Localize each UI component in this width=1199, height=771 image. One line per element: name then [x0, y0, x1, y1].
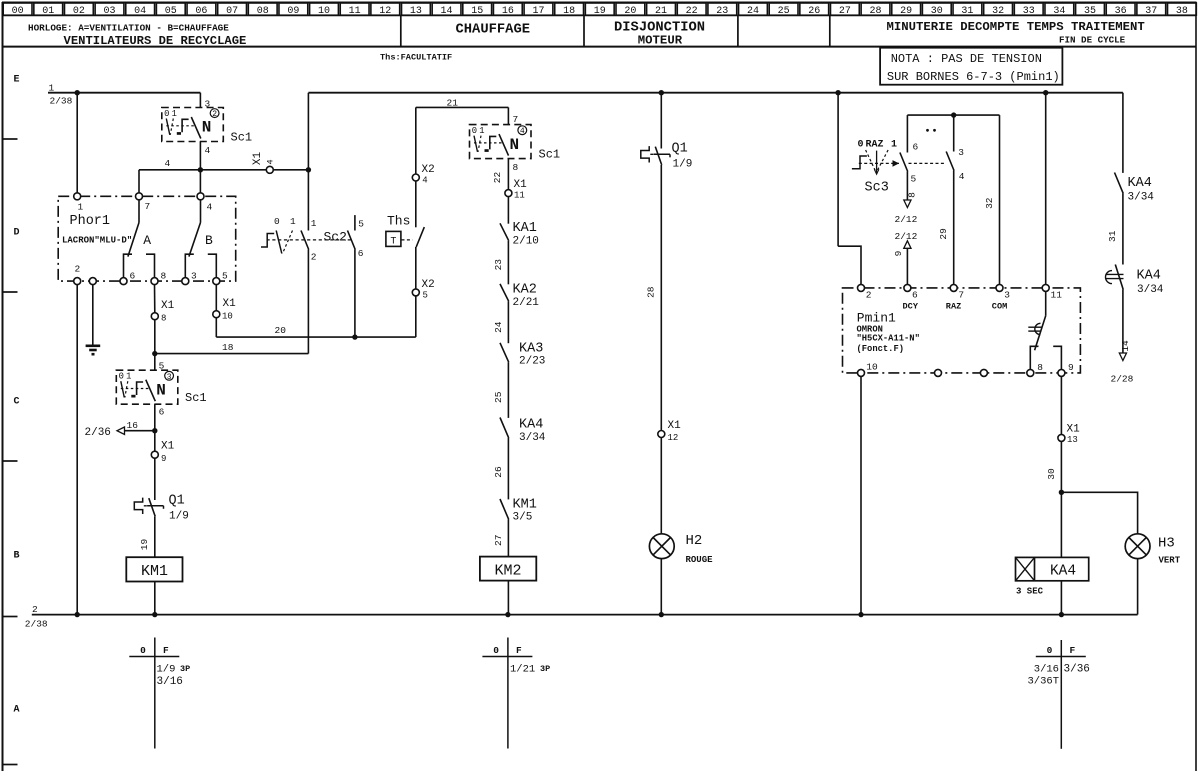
svg-text:2/10: 2/10: [513, 235, 539, 247]
contact KA3: [500, 343, 509, 362]
wire jog to Pmin1 pin2: [838, 246, 861, 285]
wire KA3 to KA4: [507, 362, 509, 418]
wire Q1a to KM1 coil: [154, 517, 156, 558]
Pmin1 pin9 terminal: [1058, 369, 1065, 376]
svg-text:Sc2: Sc2: [324, 229, 347, 244]
table disjoncteur Q1 (col05): [154, 638, 156, 749]
svg-text:3P: 3P: [540, 664, 550, 674]
Pmin1 bottom terminal b3: [980, 369, 987, 376]
title band divider col13: [400, 15, 402, 46]
wire 20 horizontal: [216, 336, 415, 338]
svg-text:4: 4: [265, 159, 275, 164]
svg-text:1/9: 1/9: [157, 663, 176, 675]
junction y115: [951, 112, 956, 117]
svg-text:X1: X1: [668, 420, 682, 432]
wire Q1b to X1:12: [660, 165, 662, 431]
svg-text:X1: X1: [223, 298, 237, 310]
svg-text:4: 4: [165, 158, 171, 169]
page border left: [2, 2, 4, 771]
svg-text:3/16: 3/16: [157, 676, 183, 688]
wire Sc1 pin8 to X1:11: [507, 159, 509, 190]
selector Sc2 actuator step: [261, 234, 274, 248]
table minuterie (col34): [1060, 640, 1062, 749]
svg-text:23: 23: [493, 259, 504, 271]
wire rail1 to Q1b: [660, 93, 662, 149]
wire H3 to rail2: [1137, 559, 1139, 615]
svg-text:Sc3: Sc3: [865, 181, 889, 196]
wire Sc3 pin5 down to arrow: [906, 172, 908, 201]
wire Pmin1 pin10 to rail2: [860, 376, 862, 614]
svg-text:Q1: Q1: [169, 494, 185, 509]
svg-text:0: 0: [493, 645, 499, 656]
arrow down 2/28: [1119, 353, 1126, 361]
svg-text:2: 2: [866, 289, 872, 300]
terminal X1:11: [505, 190, 512, 197]
wire junction to KA4 coil: [1060, 492, 1062, 557]
svg-text:ROUGE: ROUGE: [686, 555, 714, 565]
Pmin1 pin3 terminal: [996, 284, 1003, 291]
svg-text:H2: H2: [686, 533, 703, 549]
Pmin1 changeover common from pin11: [1045, 291, 1047, 316]
Phor1 switch A stub pin6: [124, 254, 133, 278]
coil KM1: [126, 557, 182, 581]
wire rail 1 left segment: [48, 92, 200, 94]
svg-text:KA1: KA1: [513, 221, 537, 236]
svg-text:4: 4: [959, 171, 965, 182]
svg-text:3/34: 3/34: [1137, 284, 1164, 296]
svg-text:KM2: KM2: [494, 562, 521, 579]
wire KA4 coil to rail2: [1060, 581, 1062, 615]
svg-text:6: 6: [913, 142, 919, 153]
wire rail 1 right segment: [308, 92, 1123, 94]
title band divider col24: [737, 15, 739, 46]
svg-text:X1: X1: [161, 300, 175, 312]
svg-text:4: 4: [205, 145, 211, 156]
Phor1 switch A blade: [138, 200, 140, 223]
svg-text:1: 1: [49, 82, 55, 93]
svg-text:12: 12: [668, 433, 679, 443]
wire X2:5 down to wire20: [415, 296, 417, 337]
Pmin1 stub pin8: [1030, 346, 1038, 369]
svg-text:F: F: [1069, 645, 1075, 656]
Pmin1 delay symbol: [1035, 323, 1041, 334]
wire KA4 contact to timed contact: [1122, 193, 1124, 264]
wire 18 horizontal: [155, 353, 309, 355]
svg-text:MINUTERIE DECOMPTE TEMPS TRAIT: MINUTERIE DECOMPTE TEMPS TRAITEMENT: [887, 20, 1146, 34]
svg-text:2/38: 2/38: [25, 619, 48, 630]
svg-text:F: F: [516, 645, 522, 656]
svg-text:1: 1: [479, 126, 484, 136]
svg-text:SUR BORNES 6-7-3 (Pmin1): SUR BORNES 6-7-3 (Pmin1): [887, 70, 1060, 84]
svg-text:X1: X1: [1067, 424, 1081, 436]
svg-text:Sc1: Sc1: [539, 148, 561, 162]
Phor1 pin4 terminal: [197, 193, 204, 200]
wire KM2 to rail2: [507, 581, 509, 615]
svg-text:3/34: 3/34: [519, 432, 546, 444]
svg-text:Sc1: Sc1: [231, 131, 253, 145]
wire rail1 to Pmin1 pin11: [1045, 93, 1047, 285]
svg-text:6: 6: [130, 270, 136, 281]
wire KA4 to KM1 contact: [507, 438, 509, 500]
mechanical link dots: [926, 129, 929, 132]
svg-text:6: 6: [358, 248, 364, 259]
selector Sc2 V dashed: [283, 231, 293, 254]
svg-text:25: 25: [493, 391, 504, 403]
svg-text:2/21: 2/21: [513, 297, 540, 309]
wire 21 right drop to Sc1 pin7: [507, 107, 509, 124]
svg-text:B: B: [205, 233, 213, 248]
wire rail 2: [32, 614, 1138, 616]
svg-text:10: 10: [866, 361, 878, 372]
svg-text:0: 0: [140, 645, 146, 656]
svg-text:22: 22: [492, 172, 503, 184]
svg-text:8: 8: [161, 313, 166, 323]
title band top line: [2, 14, 1197, 16]
Phor1 pin3 terminal: [182, 278, 189, 285]
selector Sc3 center pointer: [876, 151, 878, 174]
junction at (308,170): [306, 167, 311, 172]
Pmin1 pin7 terminal: [950, 284, 957, 291]
svg-text:8: 8: [513, 162, 519, 173]
wire branch to H3: [1061, 492, 1137, 534]
svg-text:X1: X1: [514, 179, 528, 191]
svg-text:4: 4: [520, 127, 525, 136]
svg-text:Q1: Q1: [672, 142, 688, 157]
svg-text:2/36: 2/36: [85, 427, 111, 439]
svg-text:B: B: [13, 550, 19, 561]
svg-text:T: T: [390, 236, 396, 247]
wire Phor1 pin5 to X1:10: [215, 285, 217, 311]
Sc2 contact pins 5-6 stub: [354, 215, 356, 230]
wire rail1 down x308: [307, 93, 309, 231]
svg-text:10: 10: [222, 312, 233, 322]
svg-text:1: 1: [172, 109, 177, 119]
wire timed contact down: [1122, 290, 1124, 354]
svg-text:8: 8: [907, 192, 918, 198]
svg-text:2: 2: [212, 110, 217, 119]
wire 21 left drop to X2:4: [415, 107, 417, 174]
svg-text:9: 9: [161, 454, 166, 464]
svg-text:1/21: 1/21: [510, 663, 535, 675]
svg-text:VERT: VERT: [1159, 556, 1181, 566]
svg-text:3/34: 3/34: [1128, 191, 1155, 203]
Phor1 switch B stub pin5: [208, 254, 217, 278]
svg-text:3/16: 3/16: [1034, 663, 1059, 675]
wire y115 to Sc3 contact pin6: [906, 115, 908, 152]
selector Sc3 V dashed right: [877, 150, 888, 171]
Ths contact blade: [416, 227, 424, 247]
wire X1:9 to Q1a: [154, 458, 156, 500]
svg-text:2/28: 2/28: [1111, 374, 1134, 385]
lamp H2: [649, 534, 674, 559]
wire KA1 to KA2: [507, 241, 509, 285]
svg-text:X1: X1: [161, 441, 175, 453]
svg-text:E: E: [13, 74, 19, 85]
svg-text:3 SEC: 3 SEC: [1016, 586, 1044, 596]
Phor1 pin8 terminal: [151, 278, 158, 285]
wire KM1 to rail2: [154, 582, 156, 615]
Phor1 pin6 terminal: [120, 278, 127, 285]
terminal X2:5: [412, 289, 419, 296]
svg-text:6: 6: [912, 289, 918, 300]
junction on rail1 x661.3: [659, 90, 664, 95]
left border tick y764.5: [2, 764, 18, 766]
junction on rail2 x77.2: [75, 612, 80, 617]
terminal X1:4: [266, 166, 273, 173]
left border tick y616.5: [2, 616, 18, 618]
svg-text:3: 3: [958, 147, 964, 158]
wire X1:12 to lamp H2: [660, 437, 662, 533]
svg-text:5: 5: [423, 291, 428, 301]
svg-text:KM1: KM1: [141, 563, 168, 580]
Phor1 switch B stub pin3: [185, 254, 194, 278]
svg-text:7: 7: [513, 114, 519, 125]
svg-text:CHAUFFAGE: CHAUFFAGE: [456, 22, 531, 37]
Pmin1 pin11 terminal: [1042, 284, 1049, 291]
svg-text:1: 1: [891, 140, 897, 151]
svg-text:KA3: KA3: [519, 341, 543, 356]
terminal X1:13: [1058, 434, 1065, 441]
svg-text:LACRON"MLU-D": LACRON"MLU-D": [62, 235, 132, 245]
switch Sc1 upper (horloge contact 2): [162, 108, 224, 142]
arrow head 2/36: [117, 427, 125, 434]
selector Sc3 link arrow: [893, 161, 898, 166]
Ths dashed link: [402, 239, 413, 241]
Pmin1 pin2 terminal: [858, 284, 865, 291]
svg-text:18: 18: [222, 342, 234, 353]
wire rail1 to Sc1 upper pin3: [199, 93, 201, 108]
terminal X2:4: [412, 174, 419, 181]
svg-text:3/36: 3/36: [1064, 663, 1090, 675]
svg-text:NOTA : PAS DE TENSION: NOTA : PAS DE TENSION: [891, 52, 1042, 66]
svg-text:RAZ: RAZ: [866, 140, 884, 151]
wire Pmin1 pin9 to X1:13: [1060, 376, 1062, 434]
left border tick y292: [2, 291, 18, 293]
svg-text:MOTEUR: MOTEUR: [638, 33, 683, 47]
svg-text:N: N: [510, 136, 520, 154]
svg-text:9: 9: [893, 250, 904, 256]
wire Phor1 pin2 down to rail2: [76, 285, 78, 615]
left border tick y461: [2, 460, 18, 462]
junction on rail1 x1045.7: [1043, 90, 1048, 95]
svg-text:16: 16: [127, 420, 139, 431]
svg-text:1: 1: [311, 218, 317, 229]
block Phor1 outline: [58, 196, 236, 281]
svg-text:Ths: Ths: [387, 214, 410, 229]
svg-text:28: 28: [645, 286, 656, 298]
svg-text:24: 24: [493, 321, 504, 333]
junction on rail2 x507.9: [505, 612, 510, 617]
svg-text:HORLOGE: A=VENTILATION - B=CHA: HORLOGE: A=VENTILATION - B=CHAUFFAGE: [28, 23, 229, 34]
svg-text:2/38: 2/38: [50, 96, 73, 107]
terminal X1:12: [658, 431, 665, 438]
svg-text:31: 31: [1107, 230, 1118, 242]
Phor1 pin7 terminal: [136, 193, 143, 200]
wire top link y115: [907, 114, 999, 116]
svg-text:H3: H3: [1158, 536, 1175, 552]
wire contact 4 to Pmin1 pin7 RAZ: [953, 171, 955, 285]
terminal X1:10: [213, 311, 220, 318]
svg-text:RAZ: RAZ: [946, 302, 961, 312]
svg-text:2: 2: [311, 252, 317, 263]
junction on rail1 x77.2: [75, 90, 80, 95]
svg-text:2/23: 2/23: [519, 356, 545, 368]
junction wire18: [152, 351, 157, 356]
junction on rail2 x661.3: [659, 612, 664, 617]
svg-text:X2: X2: [422, 279, 435, 291]
terminal X1:8: [151, 313, 158, 320]
svg-text:11: 11: [514, 191, 525, 201]
Phor1 pin5 terminal: [213, 278, 220, 285]
wire 21 horizontal: [416, 106, 509, 108]
svg-text:Sc1: Sc1: [185, 391, 207, 405]
junction on rail2 x861.0: [858, 612, 863, 617]
contact KA1: [500, 223, 509, 240]
svg-text:8: 8: [1037, 362, 1043, 373]
svg-text:3P: 3P: [180, 664, 190, 674]
selector Sc3 V dashed left: [866, 150, 876, 171]
wire Phor1 pin8 to X1:8: [154, 285, 156, 313]
svg-text:"H5CX-A11-N": "H5CX-A11-N": [857, 334, 920, 344]
svg-text:13: 13: [1067, 435, 1078, 445]
svg-text:32: 32: [984, 197, 995, 209]
svg-text:2/12: 2/12: [895, 214, 918, 225]
wire to arrow 2/36: [125, 430, 155, 432]
Phor1 pin1 terminal: [74, 193, 81, 200]
svg-text:6: 6: [159, 407, 165, 418]
Phor1 switch A stub pin8: [146, 254, 155, 278]
svg-text:X1: X1: [252, 152, 264, 166]
Sc2 contact 1-2 blade: [301, 231, 309, 250]
junction on rail2 x154.8: [152, 612, 157, 617]
Pmin1 pin8 terminal: [1027, 369, 1034, 376]
svg-text:7: 7: [958, 289, 964, 300]
header column-number row 00-38: [3, 3, 32, 15]
coil KM2: [480, 557, 536, 581]
Phor1 switch B blade: [200, 200, 202, 223]
contact KM1: [500, 499, 509, 519]
svg-text:0: 0: [119, 372, 124, 382]
Pmin1 pin6 terminal: [904, 284, 911, 291]
svg-text:1: 1: [290, 216, 296, 227]
switch Sc1 lower (horloge contact 3): [116, 370, 178, 404]
svg-text:2/12: 2/12: [895, 231, 918, 242]
svg-text:1: 1: [78, 201, 84, 212]
junction on rail1 x838.1: [835, 90, 840, 95]
svg-text:F: F: [163, 645, 169, 656]
timed contact KA4 blade: [1115, 265, 1123, 290]
svg-text:3: 3: [1004, 289, 1010, 300]
wire rail1 down x838: [837, 93, 839, 247]
junction at (200,170): [198, 167, 203, 172]
contact KA4 (fin de cycle): [1115, 173, 1124, 194]
coil KA4 (timer): [1016, 557, 1089, 580]
breaker Q1 contact (disjonction): [641, 146, 649, 162]
wire rail1 to Phor1 pin1: [76, 93, 78, 193]
svg-text:20: 20: [275, 325, 287, 336]
svg-text:27: 27: [493, 535, 504, 546]
title band divider col19: [583, 15, 585, 46]
svg-text:KA4: KA4: [1050, 564, 1076, 580]
svg-text:1: 1: [126, 372, 131, 382]
wire Phor1 ground pin down: [92, 285, 94, 345]
wire Sc2 pin2 down to wire18: [307, 250, 309, 354]
svg-text:FIN DE CYCLE: FIN DE CYCLE: [1059, 35, 1126, 46]
wire junction y115 to contact 3: [953, 115, 955, 151]
svg-text:1/9: 1/9: [169, 510, 189, 522]
svg-text:11: 11: [1051, 290, 1063, 301]
wire X1:11 to KA1: [507, 197, 509, 224]
selector Sc2 dashed link: [267, 239, 353, 241]
svg-text:3/36T: 3/36T: [1027, 676, 1059, 688]
wire rail1 corner down x1123: [1122, 93, 1124, 173]
svg-text:2: 2: [32, 604, 38, 615]
breaker Q1 contact (KM1 branch): [134, 498, 142, 514]
svg-text:7: 7: [145, 201, 151, 212]
wire H2 to rail2: [660, 559, 662, 615]
wire X1:13 to junction H3: [1060, 441, 1062, 492]
thermostat Ths box: [386, 231, 401, 246]
arrow down to 2/12: [904, 200, 911, 208]
svg-text:29: 29: [938, 228, 949, 240]
wire KA2 to KA3: [507, 301, 509, 343]
svg-text:KA4: KA4: [1128, 176, 1152, 191]
svg-text:0: 0: [274, 216, 280, 227]
svg-text:1/9: 1/9: [673, 158, 693, 170]
Pmin1 changeover blade: [1035, 316, 1046, 351]
wire X1:10 down to wire20: [215, 318, 217, 338]
wire KM1 contact to KM2 coil: [507, 519, 509, 556]
page border right: [1195, 2, 1197, 771]
junction on rail2 x1061.4: [1059, 612, 1064, 617]
svg-text:26: 26: [493, 466, 504, 478]
wire Ths contact to X2:5: [415, 247, 417, 289]
selector Sc3 dashed link: [859, 162, 899, 164]
table disjoncteur chauffage (col16): [507, 638, 509, 749]
contact KA4 (chauffage): [500, 418, 509, 438]
svg-text:COM: COM: [992, 302, 1007, 312]
svg-text:9: 9: [1068, 362, 1074, 373]
svg-text:14: 14: [1120, 340, 1131, 352]
svg-text:N: N: [156, 381, 166, 399]
svg-text:A: A: [143, 233, 151, 248]
wire Sc2 pin6 down to wire20: [354, 250, 356, 338]
wire arrow to Pmin1 pin6: [906, 248, 908, 284]
svg-text:0: 0: [472, 126, 477, 136]
svg-text:KA4: KA4: [1137, 268, 1161, 283]
Sc3 contact 6-5 blade: [900, 153, 908, 172]
wire X1:8 to junction18: [154, 320, 156, 371]
svg-text:5: 5: [358, 219, 364, 230]
Phor1 ground pin terminal: [89, 278, 96, 285]
Sc2 contact 5-6 blade: [348, 231, 356, 250]
junction H3 branch: [1059, 490, 1064, 495]
svg-text:5: 5: [911, 174, 917, 185]
wire X2:4 to Ths contact: [415, 181, 417, 227]
svg-text:Pmin1: Pmin1: [857, 310, 896, 325]
svg-text:8: 8: [161, 270, 167, 281]
title band divider col27: [829, 15, 831, 46]
svg-text:D: D: [13, 227, 19, 238]
svg-text:(Fonct.F): (Fonct.F): [857, 344, 905, 354]
Pmin1 stub pin9: [1053, 346, 1061, 369]
svg-text:Phor1: Phor1: [70, 214, 111, 229]
svg-text:5: 5: [222, 270, 228, 281]
svg-text:3: 3: [191, 270, 197, 281]
ground symbol: [86, 344, 101, 347]
block Pmin1 outline: [843, 288, 1081, 373]
junction arrow 16: [152, 428, 157, 433]
